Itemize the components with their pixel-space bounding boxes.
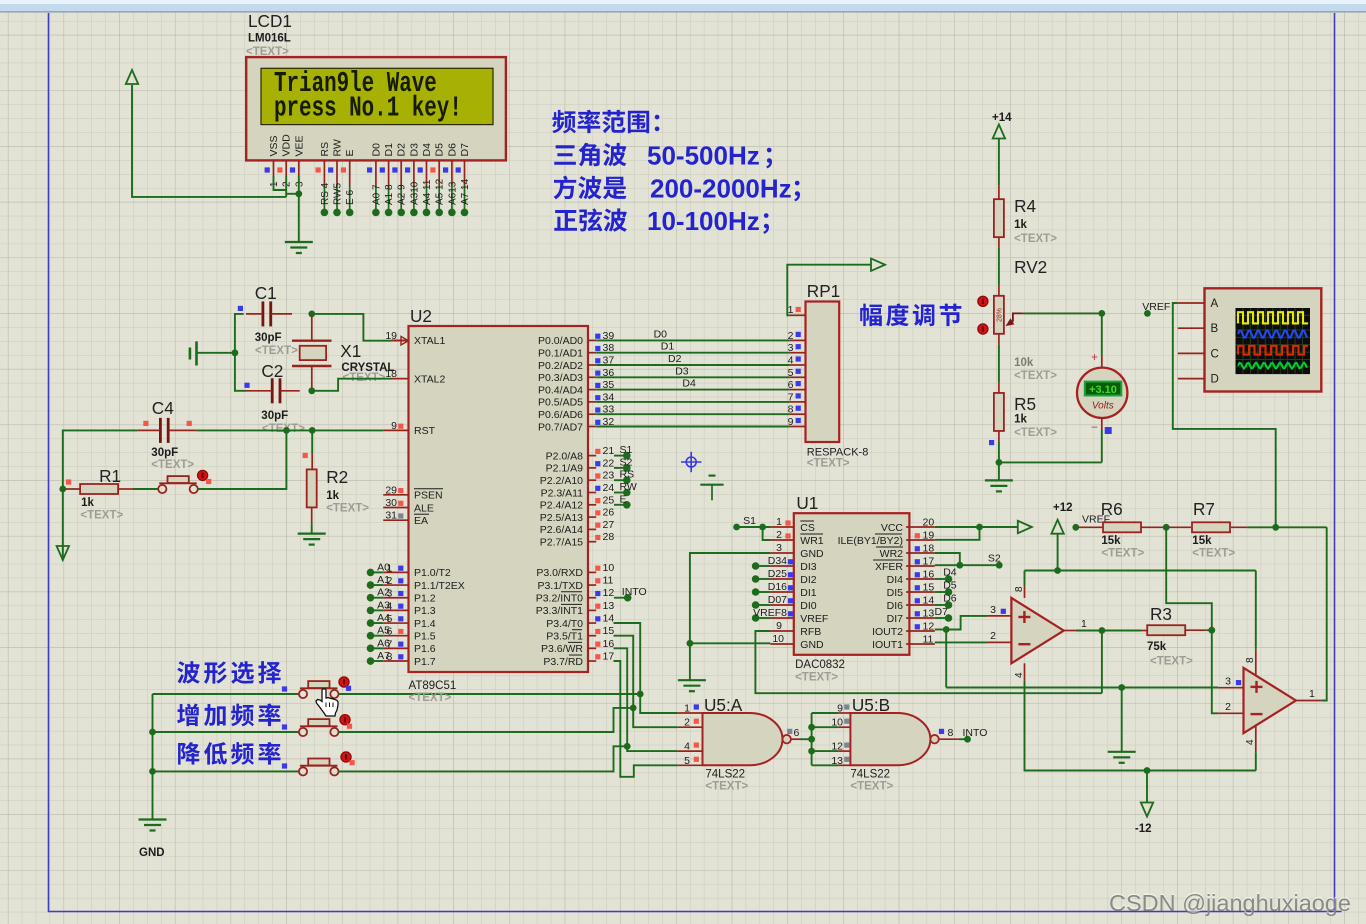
svg-text:CSDN @jianghuxiaoge: CSDN @jianghuxiaoge bbox=[1109, 890, 1351, 916]
svg-text:A5 12: A5 12 bbox=[435, 178, 446, 205]
svg-text:D0: D0 bbox=[654, 328, 668, 340]
svg-text:<TEXT>: <TEXT> bbox=[705, 780, 748, 792]
svg-text:D3: D3 bbox=[675, 365, 689, 377]
svg-text:P2.4/A12: P2.4/A12 bbox=[540, 500, 583, 512]
svg-text:4: 4 bbox=[1245, 739, 1256, 745]
svg-text:X1: X1 bbox=[340, 341, 361, 361]
svg-text:9: 9 bbox=[837, 703, 843, 715]
svg-text:25: 25 bbox=[603, 494, 615, 506]
svg-text:R3: R3 bbox=[1150, 604, 1172, 624]
svg-text:+3.10: +3.10 bbox=[1089, 384, 1117, 396]
svg-text:C2: C2 bbox=[261, 361, 283, 381]
svg-text:+12: +12 bbox=[1053, 502, 1073, 514]
svg-text:CS: CS bbox=[800, 522, 815, 534]
svg-text:<TEXT>: <TEXT> bbox=[850, 780, 893, 792]
svg-text:U5:B: U5:B bbox=[852, 695, 890, 715]
svg-text:P2.6/A14: P2.6/A14 bbox=[540, 524, 583, 536]
svg-text:28%: 28% bbox=[997, 308, 1004, 322]
svg-text:4: 4 bbox=[1014, 672, 1025, 678]
svg-text:2: 2 bbox=[282, 181, 293, 187]
svg-text:+14: +14 bbox=[992, 112, 1012, 124]
svg-text:1: 1 bbox=[387, 562, 393, 574]
svg-text:D: D bbox=[1211, 374, 1219, 386]
svg-text:<TEXT>: <TEXT> bbox=[807, 458, 850, 470]
svg-text:2: 2 bbox=[1225, 701, 1231, 713]
svg-text:23: 23 bbox=[603, 470, 615, 482]
svg-text:7: 7 bbox=[387, 638, 393, 650]
svg-text:P0.1/AD1: P0.1/AD1 bbox=[538, 348, 583, 360]
svg-text:29: 29 bbox=[385, 484, 397, 496]
svg-text:S1: S1 bbox=[620, 444, 633, 456]
svg-text:<TEXT>: <TEXT> bbox=[255, 345, 298, 357]
svg-text:P2.3/A11: P2.3/A11 bbox=[541, 487, 584, 499]
svg-text:P3.5/T1: P3.5/T1 bbox=[546, 631, 583, 643]
svg-text:30pF: 30pF bbox=[261, 410, 288, 422]
svg-text:EA: EA bbox=[414, 515, 428, 527]
svg-text:30: 30 bbox=[385, 497, 397, 509]
svg-text:5: 5 bbox=[788, 367, 794, 379]
svg-text:<TEXT>: <TEXT> bbox=[1014, 233, 1057, 245]
svg-text:2: 2 bbox=[776, 529, 782, 541]
svg-text:D16: D16 bbox=[768, 581, 787, 593]
svg-text:+: + bbox=[1091, 352, 1098, 364]
svg-text:31: 31 bbox=[385, 510, 397, 522]
svg-text:<TEXT>: <TEXT> bbox=[246, 46, 289, 58]
svg-text:7: 7 bbox=[788, 391, 794, 403]
svg-text:D6: D6 bbox=[943, 593, 957, 605]
svg-text:P2.7/A15: P2.7/A15 bbox=[540, 537, 583, 549]
svg-text:P1.7: P1.7 bbox=[414, 656, 436, 668]
svg-text:XTAL1: XTAL1 bbox=[414, 335, 445, 347]
svg-text:<TEXT>: <TEXT> bbox=[1101, 548, 1144, 560]
svg-text:DI6: DI6 bbox=[887, 600, 904, 612]
svg-text:P0.4/AD4: P0.4/AD4 bbox=[538, 384, 583, 396]
svg-text:IOUT2: IOUT2 bbox=[872, 626, 903, 638]
svg-text:WR2: WR2 bbox=[880, 548, 903, 560]
svg-text:RW5: RW5 bbox=[333, 183, 344, 205]
svg-text:P1.5: P1.5 bbox=[414, 631, 436, 643]
svg-text:VEE: VEE bbox=[293, 135, 305, 156]
svg-text:P0.2/AD2: P0.2/AD2 bbox=[538, 360, 583, 372]
svg-text:P1.0/T2: P1.0/T2 bbox=[414, 567, 451, 579]
svg-text:press No.1 key!: press No.1 key! bbox=[274, 91, 462, 124]
svg-text:10-100Hz: 10-100Hz bbox=[647, 206, 760, 236]
svg-text:18: 18 bbox=[385, 368, 397, 380]
svg-text:15: 15 bbox=[603, 625, 615, 637]
svg-text:200-2000Hz: 200-2000Hz bbox=[650, 174, 792, 204]
svg-text:<TEXT>: <TEXT> bbox=[326, 503, 369, 515]
svg-text:RW: RW bbox=[332, 139, 344, 156]
svg-text:74LS22: 74LS22 bbox=[850, 768, 890, 780]
svg-text:20: 20 bbox=[923, 517, 935, 529]
svg-text:IOUT1: IOUT1 bbox=[872, 639, 903, 651]
svg-text:DI5: DI5 bbox=[887, 587, 904, 599]
svg-text:D2: D2 bbox=[396, 143, 408, 157]
svg-text:P2.0/A8: P2.0/A8 bbox=[546, 450, 584, 462]
svg-text:GND: GND bbox=[139, 847, 165, 859]
svg-text:50-500Hz: 50-500Hz bbox=[647, 141, 760, 171]
svg-text:3: 3 bbox=[1225, 676, 1231, 688]
svg-text:A613: A613 bbox=[447, 181, 458, 205]
svg-text:P3.4/T0: P3.4/T0 bbox=[546, 618, 583, 630]
svg-text:<TEXT>: <TEXT> bbox=[80, 510, 123, 522]
svg-text:ILE(BY1/BY2): ILE(BY1/BY2) bbox=[838, 535, 903, 547]
svg-text:C1: C1 bbox=[255, 283, 277, 303]
svg-text:3: 3 bbox=[294, 181, 305, 187]
svg-text:DI2: DI2 bbox=[800, 574, 817, 586]
svg-text:5: 5 bbox=[684, 755, 690, 767]
svg-text:C: C bbox=[1211, 348, 1219, 360]
svg-text:RS: RS bbox=[319, 142, 331, 157]
svg-text:U1: U1 bbox=[796, 493, 818, 513]
svg-text:18: 18 bbox=[923, 543, 935, 555]
svg-text:10: 10 bbox=[772, 633, 784, 645]
svg-text:INTO: INTO bbox=[963, 727, 988, 739]
svg-text:D7: D7 bbox=[459, 143, 471, 157]
svg-text:16: 16 bbox=[923, 569, 935, 581]
svg-text:D4: D4 bbox=[682, 378, 696, 390]
svg-text:P1.1/T2EX: P1.1/T2EX bbox=[414, 580, 465, 592]
svg-text:D4: D4 bbox=[421, 143, 433, 157]
svg-text:30pF: 30pF bbox=[255, 332, 282, 344]
svg-text:A2 9: A2 9 bbox=[397, 184, 408, 205]
svg-text:24: 24 bbox=[603, 482, 615, 494]
svg-text:A: A bbox=[1211, 298, 1219, 310]
svg-text:R5: R5 bbox=[1014, 394, 1036, 414]
svg-text:74LS22: 74LS22 bbox=[705, 768, 745, 780]
svg-text:RS: RS bbox=[620, 469, 635, 481]
svg-text:<TEXT>: <TEXT> bbox=[795, 672, 838, 684]
svg-text:RS 4: RS 4 bbox=[320, 182, 331, 205]
svg-text:RST: RST bbox=[414, 425, 436, 437]
svg-text:D25: D25 bbox=[768, 568, 787, 580]
svg-text:P0.6/AD6: P0.6/AD6 bbox=[538, 409, 583, 421]
svg-text:19: 19 bbox=[923, 530, 935, 542]
svg-text:28: 28 bbox=[603, 531, 615, 543]
svg-text:RV2: RV2 bbox=[1014, 257, 1047, 277]
svg-text:−: − bbox=[1091, 422, 1098, 434]
svg-text:9: 9 bbox=[776, 620, 782, 632]
svg-text:INTO: INTO bbox=[622, 586, 647, 598]
svg-text:P0.7/AD7: P0.7/AD7 bbox=[538, 421, 583, 433]
svg-text:P3.3/INT1: P3.3/INT1 bbox=[536, 605, 583, 617]
svg-text:DI0: DI0 bbox=[800, 600, 817, 612]
svg-text:P0.5/AD5: P0.5/AD5 bbox=[538, 397, 583, 409]
svg-text:<TEXT>: <TEXT> bbox=[1014, 370, 1057, 382]
svg-text:9: 9 bbox=[788, 416, 794, 428]
svg-text:8: 8 bbox=[788, 404, 794, 416]
svg-text:1k: 1k bbox=[326, 490, 339, 502]
svg-text:ALE: ALE bbox=[414, 502, 434, 514]
svg-text:P2.1/A9: P2.1/A9 bbox=[546, 463, 584, 475]
svg-text:S2: S2 bbox=[988, 553, 1001, 565]
svg-text:XFER: XFER bbox=[875, 561, 903, 573]
svg-text:B: B bbox=[1211, 323, 1219, 335]
svg-text:15k: 15k bbox=[1192, 535, 1212, 547]
svg-text:VCC: VCC bbox=[881, 522, 904, 534]
svg-text:26: 26 bbox=[603, 507, 615, 519]
svg-text:DAC0832: DAC0832 bbox=[795, 659, 845, 671]
svg-text:6: 6 bbox=[794, 727, 800, 739]
svg-text:D3: D3 bbox=[408, 143, 420, 157]
svg-text:13: 13 bbox=[603, 600, 615, 612]
svg-text:10: 10 bbox=[831, 717, 843, 729]
svg-text:D2: D2 bbox=[668, 353, 682, 365]
svg-text:1k: 1k bbox=[1014, 219, 1027, 231]
svg-text:P0.0/AD0: P0.0/AD0 bbox=[538, 335, 583, 347]
svg-text:S2: S2 bbox=[620, 456, 633, 468]
svg-text:LM016L: LM016L bbox=[248, 33, 291, 45]
svg-text:Volts: Volts bbox=[1092, 401, 1114, 412]
svg-text:2: 2 bbox=[788, 330, 794, 342]
svg-text:A7 14: A7 14 bbox=[460, 178, 471, 205]
svg-text:XTAL2: XTAL2 bbox=[414, 374, 445, 386]
svg-text:DI1: DI1 bbox=[800, 587, 817, 599]
svg-text:1: 1 bbox=[1309, 688, 1315, 700]
svg-text:PSEN: PSEN bbox=[414, 490, 443, 502]
svg-text:2: 2 bbox=[684, 717, 690, 729]
svg-text:D4: D4 bbox=[943, 567, 957, 579]
svg-text:P2.5/A13: P2.5/A13 bbox=[540, 512, 583, 524]
svg-text:U2: U2 bbox=[410, 306, 432, 326]
svg-text:30pF: 30pF bbox=[151, 447, 178, 459]
svg-text:S1: S1 bbox=[743, 515, 756, 527]
svg-text:A0 7: A0 7 bbox=[371, 184, 382, 205]
svg-text:17: 17 bbox=[603, 651, 615, 663]
svg-text:<TEXT>: <TEXT> bbox=[1150, 656, 1193, 668]
svg-text:19: 19 bbox=[385, 330, 397, 342]
svg-text:P3.2/INT0: P3.2/INT0 bbox=[536, 593, 583, 605]
svg-text:1k: 1k bbox=[81, 497, 94, 509]
svg-text:1: 1 bbox=[776, 516, 782, 528]
svg-text:P1.3: P1.3 bbox=[414, 605, 436, 617]
svg-text:<TEXT>: <TEXT> bbox=[409, 692, 452, 704]
svg-text:1: 1 bbox=[788, 304, 794, 316]
svg-text:3: 3 bbox=[776, 542, 782, 554]
svg-text:10k: 10k bbox=[1014, 357, 1034, 369]
svg-text:4: 4 bbox=[684, 741, 690, 753]
svg-text:R7: R7 bbox=[1193, 499, 1215, 519]
svg-text:3: 3 bbox=[387, 588, 393, 600]
svg-text:1: 1 bbox=[1081, 618, 1087, 630]
svg-text:13: 13 bbox=[923, 608, 935, 620]
svg-text:DI3: DI3 bbox=[800, 561, 817, 573]
svg-text:LCD1: LCD1 bbox=[248, 11, 292, 31]
svg-text:D1: D1 bbox=[661, 341, 675, 353]
svg-text:17: 17 bbox=[923, 556, 935, 568]
svg-text:6: 6 bbox=[788, 379, 794, 391]
svg-text:P1.2: P1.2 bbox=[414, 593, 436, 605]
svg-text:1: 1 bbox=[684, 703, 690, 715]
svg-text:VSS: VSS bbox=[268, 135, 280, 156]
svg-text:8: 8 bbox=[948, 727, 954, 739]
svg-text:D5: D5 bbox=[943, 580, 957, 592]
svg-text:P1.6: P1.6 bbox=[414, 643, 436, 655]
svg-text:R1: R1 bbox=[99, 466, 121, 486]
svg-text:12: 12 bbox=[923, 621, 935, 633]
svg-text:D6: D6 bbox=[446, 143, 458, 157]
svg-text:E 6: E 6 bbox=[345, 190, 356, 205]
svg-text:12: 12 bbox=[831, 741, 843, 753]
svg-text:14: 14 bbox=[603, 613, 615, 625]
svg-text:1: 1 bbox=[269, 181, 280, 187]
svg-text:A1 8: A1 8 bbox=[384, 184, 395, 205]
svg-text:11: 11 bbox=[923, 634, 934, 646]
svg-text:P3.7/RD: P3.7/RD bbox=[543, 656, 583, 668]
svg-text:5: 5 bbox=[387, 613, 393, 625]
svg-text:3: 3 bbox=[990, 604, 996, 616]
svg-text:VREF: VREF bbox=[1142, 301, 1170, 313]
svg-text:8: 8 bbox=[387, 651, 393, 663]
svg-text:12: 12 bbox=[603, 587, 615, 599]
svg-text:2: 2 bbox=[387, 575, 393, 587]
svg-text:3: 3 bbox=[788, 342, 794, 354]
svg-text:D7: D7 bbox=[935, 606, 949, 618]
svg-text:1k: 1k bbox=[1014, 414, 1027, 426]
svg-text:D07: D07 bbox=[768, 594, 787, 606]
svg-text:16: 16 bbox=[603, 638, 615, 650]
svg-text:WR1: WR1 bbox=[800, 535, 823, 547]
svg-text:75k: 75k bbox=[1147, 641, 1167, 653]
svg-text:6: 6 bbox=[387, 626, 393, 638]
svg-text:14: 14 bbox=[923, 595, 935, 607]
svg-text:E: E bbox=[344, 149, 356, 156]
svg-text:GND: GND bbox=[800, 639, 824, 651]
svg-text:VREF8: VREF8 bbox=[753, 607, 787, 619]
svg-text:15k: 15k bbox=[1101, 535, 1121, 547]
svg-text:P3.1/TXD: P3.1/TXD bbox=[537, 580, 583, 592]
svg-text:21: 21 bbox=[603, 445, 615, 457]
svg-text:D5: D5 bbox=[434, 143, 446, 157]
svg-text:P2.2/A10: P2.2/A10 bbox=[540, 475, 583, 487]
svg-text:P3.0/RXD: P3.0/RXD bbox=[536, 567, 583, 579]
svg-text:<TEXT>: <TEXT> bbox=[1014, 427, 1057, 439]
svg-text:D34: D34 bbox=[768, 555, 787, 567]
svg-text:P3.6/WR: P3.6/WR bbox=[541, 643, 583, 655]
svg-text:<TEXT>: <TEXT> bbox=[151, 459, 194, 471]
svg-text:E: E bbox=[620, 493, 627, 505]
svg-text:4: 4 bbox=[387, 600, 393, 612]
svg-text:U5:A: U5:A bbox=[704, 695, 743, 715]
svg-text:DI7: DI7 bbox=[887, 613, 904, 625]
svg-text:AT89C51: AT89C51 bbox=[409, 680, 457, 692]
svg-text:8: 8 bbox=[1014, 586, 1025, 592]
svg-text:15: 15 bbox=[923, 582, 935, 594]
svg-text:22: 22 bbox=[603, 457, 615, 469]
svg-text:13: 13 bbox=[831, 755, 843, 767]
svg-text:GND: GND bbox=[800, 548, 824, 560]
svg-text:P1.4: P1.4 bbox=[414, 618, 436, 630]
svg-text:<TEXT>: <TEXT> bbox=[1192, 548, 1235, 560]
svg-text:VREF: VREF bbox=[800, 613, 828, 625]
svg-text:R2: R2 bbox=[326, 467, 348, 487]
svg-text:D0: D0 bbox=[370, 143, 382, 157]
svg-text:A310: A310 bbox=[409, 181, 420, 205]
svg-text:9: 9 bbox=[391, 420, 397, 432]
svg-text:VDD: VDD bbox=[281, 134, 293, 157]
svg-text:P0.3/AD3: P0.3/AD3 bbox=[538, 372, 583, 384]
svg-text:27: 27 bbox=[603, 519, 615, 531]
svg-text:10: 10 bbox=[603, 562, 615, 574]
svg-text:RP1: RP1 bbox=[807, 281, 840, 301]
svg-text:DI4: DI4 bbox=[887, 574, 904, 586]
svg-text:2: 2 bbox=[990, 630, 996, 642]
svg-text:A4 11: A4 11 bbox=[422, 179, 433, 205]
svg-text:D1: D1 bbox=[383, 143, 395, 157]
svg-text:-12: -12 bbox=[1135, 823, 1152, 835]
svg-text:RFB: RFB bbox=[800, 626, 821, 638]
svg-text:4: 4 bbox=[788, 355, 794, 367]
svg-text:11: 11 bbox=[603, 575, 614, 587]
svg-text:R4: R4 bbox=[1014, 196, 1036, 216]
svg-text:C4: C4 bbox=[152, 398, 174, 418]
svg-text:8: 8 bbox=[1245, 657, 1256, 663]
svg-text:RW: RW bbox=[620, 481, 637, 493]
